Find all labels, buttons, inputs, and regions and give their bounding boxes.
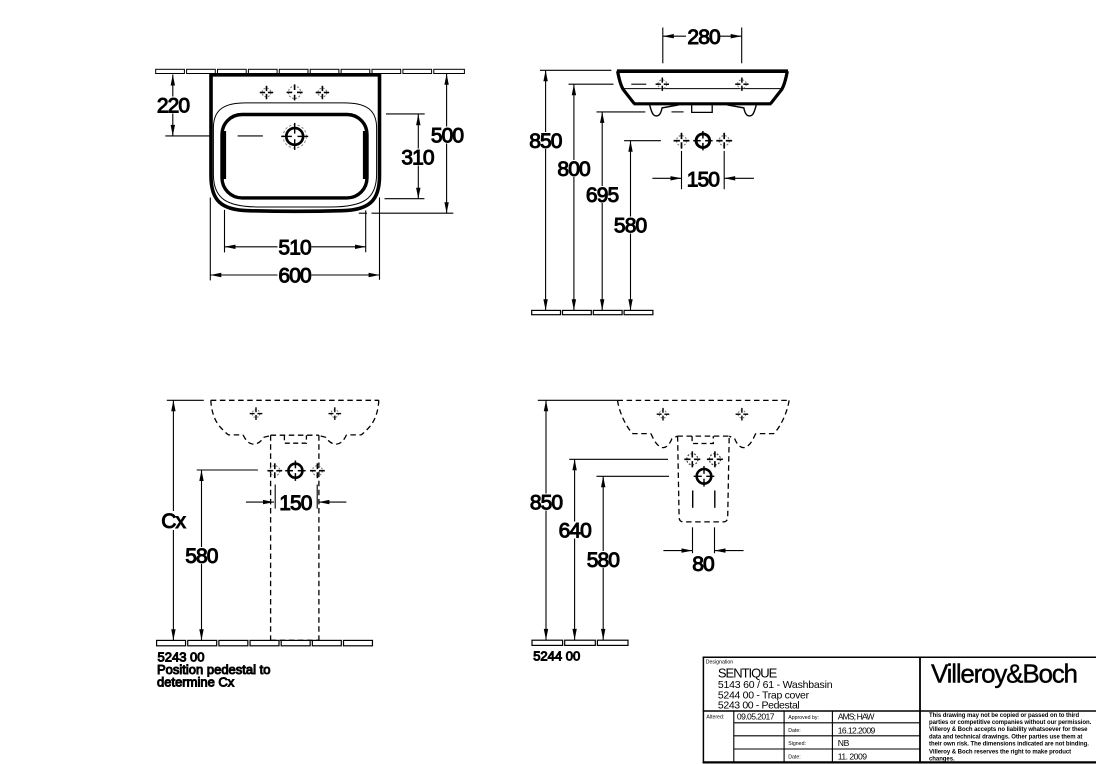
svg-text:parties or competitive compani: parties or competitive companies without… <box>929 720 1092 726</box>
svg-text:Altered:: Altered: <box>706 714 724 720</box>
svg-text:11. 2009: 11. 2009 <box>838 752 868 762</box>
tap hole centre <box>287 84 303 100</box>
svg-text:695: 695 <box>586 184 619 207</box>
mounting notch (dashed) <box>692 436 713 443</box>
inner bowl right wall band <box>363 131 368 179</box>
trap cover outline (dashed) <box>678 436 730 522</box>
svg-text:Villeroy & Boch reserves the r: Villeroy & Boch reserves the right to ma… <box>929 750 1071 756</box>
dimension 580 <box>197 470 258 640</box>
svg-text:16.12.2009: 16.12.2009 <box>838 725 876 735</box>
pedestal outline (dashed) <box>271 435 319 640</box>
svg-text:Date:: Date: <box>788 754 800 760</box>
fixing hole left <box>656 78 669 91</box>
svg-text:640: 640 <box>559 520 592 543</box>
svg-text:80: 80 <box>692 553 714 576</box>
svg-text:data and technical drawings. O: data and technical drawings. Other parti… <box>929 734 1082 740</box>
basin hidden outline (dashed) <box>618 400 790 447</box>
tap hole centre <box>693 131 712 150</box>
tap hole centre <box>285 461 305 481</box>
legal notice <box>929 713 1092 762</box>
basin top edge <box>617 69 788 73</box>
dimension 600 <box>210 197 379 280</box>
dimension 310 <box>385 114 425 199</box>
dimension 580 <box>624 141 661 311</box>
svg-text:280: 280 <box>687 26 720 49</box>
svg-text:850: 850 <box>530 492 563 515</box>
tap hole right <box>316 86 329 99</box>
drain centreline <box>165 135 263 137</box>
underside centre notch <box>692 105 713 112</box>
svg-text:850: 850 <box>529 130 562 153</box>
mounting notch (dashed) <box>284 435 306 443</box>
wall hatch line <box>156 69 465 73</box>
underside left bracket hook <box>650 105 679 116</box>
floor line <box>532 310 653 314</box>
dimension 150 <box>652 151 754 189</box>
svg-text:Approved by:: Approved by: <box>788 715 819 721</box>
drain hole <box>281 123 308 150</box>
basin bottom edge <box>634 102 772 105</box>
svg-text:SENTIQUE: SENTIQUE <box>718 665 778 680</box>
tap hole left <box>267 463 282 478</box>
basin right side profile <box>771 71 788 104</box>
svg-text:Villeroy & Boch accepts no lia: Villeroy & Boch accepts no liability wha… <box>929 727 1088 733</box>
dimension 800 <box>569 84 614 310</box>
basin rim thin line <box>213 103 376 207</box>
svg-text:220: 220 <box>157 95 190 118</box>
svg-text:09.05.2017: 09.05.2017 <box>737 712 775 722</box>
fixing holes centreline <box>631 83 646 85</box>
svg-text:changes.: changes. <box>929 756 955 762</box>
dimension 695 <box>597 112 684 310</box>
tap hole right <box>310 463 325 478</box>
svg-text:310: 310 <box>401 147 434 170</box>
basin fixing hole left <box>657 408 670 421</box>
trap slot left line <box>692 491 694 508</box>
dimension 150 <box>246 485 347 509</box>
inner bowl left wall band <box>221 131 226 179</box>
dimension 510 <box>225 210 367 253</box>
basin rim thin line <box>623 88 782 90</box>
svg-text:510: 510 <box>278 237 311 260</box>
svg-text:Villeroy&Boch: Villeroy&Boch <box>931 658 1077 688</box>
svg-text:600: 600 <box>278 265 311 288</box>
inner bowl outline <box>222 115 367 198</box>
svg-text:150: 150 <box>279 492 312 515</box>
basin fixing hole right <box>329 407 342 420</box>
basin left side profile <box>618 71 635 104</box>
svg-text:5243 00 - Pedestal: 5243 00 - Pedestal <box>718 700 800 712</box>
svg-text:Cx: Cx <box>161 510 186 533</box>
dimension 220 <box>171 75 175 136</box>
svg-text:150: 150 <box>687 168 720 191</box>
svg-text:AMS; HAW: AMS; HAW <box>838 712 876 722</box>
dimension 850 <box>538 400 618 640</box>
fixing hole right <box>735 78 748 91</box>
svg-text:580: 580 <box>587 549 620 572</box>
trap fixing hole left <box>684 451 700 467</box>
dimension 80 <box>663 527 743 553</box>
svg-text:800: 800 <box>557 158 590 181</box>
underside right bracket hook <box>727 105 756 116</box>
tap hole right <box>716 133 732 149</box>
trap fixing hole right <box>707 451 723 467</box>
svg-text:Date:: Date: <box>788 728 800 734</box>
drain hole <box>694 466 715 487</box>
svg-text:NB: NB <box>838 738 850 748</box>
basin hidden outline (dashed) <box>211 400 379 444</box>
svg-text:This drawing may not be copied: This drawing may not be copied or passed… <box>929 713 1079 719</box>
floor line <box>532 640 628 645</box>
floor line <box>157 640 373 645</box>
svg-text:580: 580 <box>185 545 218 568</box>
trap slot right line <box>714 491 716 508</box>
dimension 580 <box>597 476 670 640</box>
title block frame <box>703 657 1096 764</box>
tap hole left <box>260 86 273 99</box>
washbasin outer outline <box>211 75 380 212</box>
dimension 500 <box>359 74 454 213</box>
dimension 850 <box>540 70 612 310</box>
dimension 280 <box>663 28 742 64</box>
svg-text:determine Cx: determine Cx <box>157 675 235 690</box>
table grid <box>734 711 920 762</box>
svg-text:their own risk. The dimensions: their own risk. The dimensions indicated… <box>929 741 1089 747</box>
dimension 640 <box>569 459 668 640</box>
basin fixing hole right <box>736 408 749 421</box>
svg-text:580: 580 <box>614 215 647 238</box>
tap hole left <box>674 133 690 149</box>
dimension Cx <box>167 400 204 640</box>
basin fixing hole left <box>250 407 263 420</box>
svg-text:5244 00: 5244 00 <box>533 649 580 664</box>
svg-text:500: 500 <box>431 125 464 148</box>
svg-text:Signed:: Signed: <box>788 741 806 747</box>
